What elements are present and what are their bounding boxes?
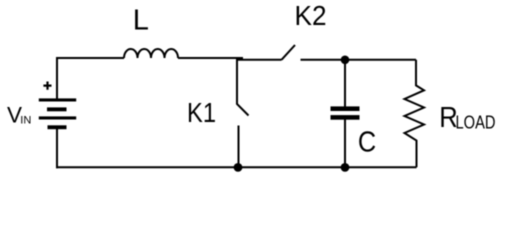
svg-text:K1: K1 — [187, 97, 216, 128]
svg-text:K2: K2 — [295, 0, 327, 31]
svg-text:LOAD: LOAD — [456, 111, 496, 132]
svg-text:IN: IN — [20, 115, 31, 127]
svg-text:C: C — [358, 126, 376, 158]
svg-text:L: L — [133, 5, 149, 37]
